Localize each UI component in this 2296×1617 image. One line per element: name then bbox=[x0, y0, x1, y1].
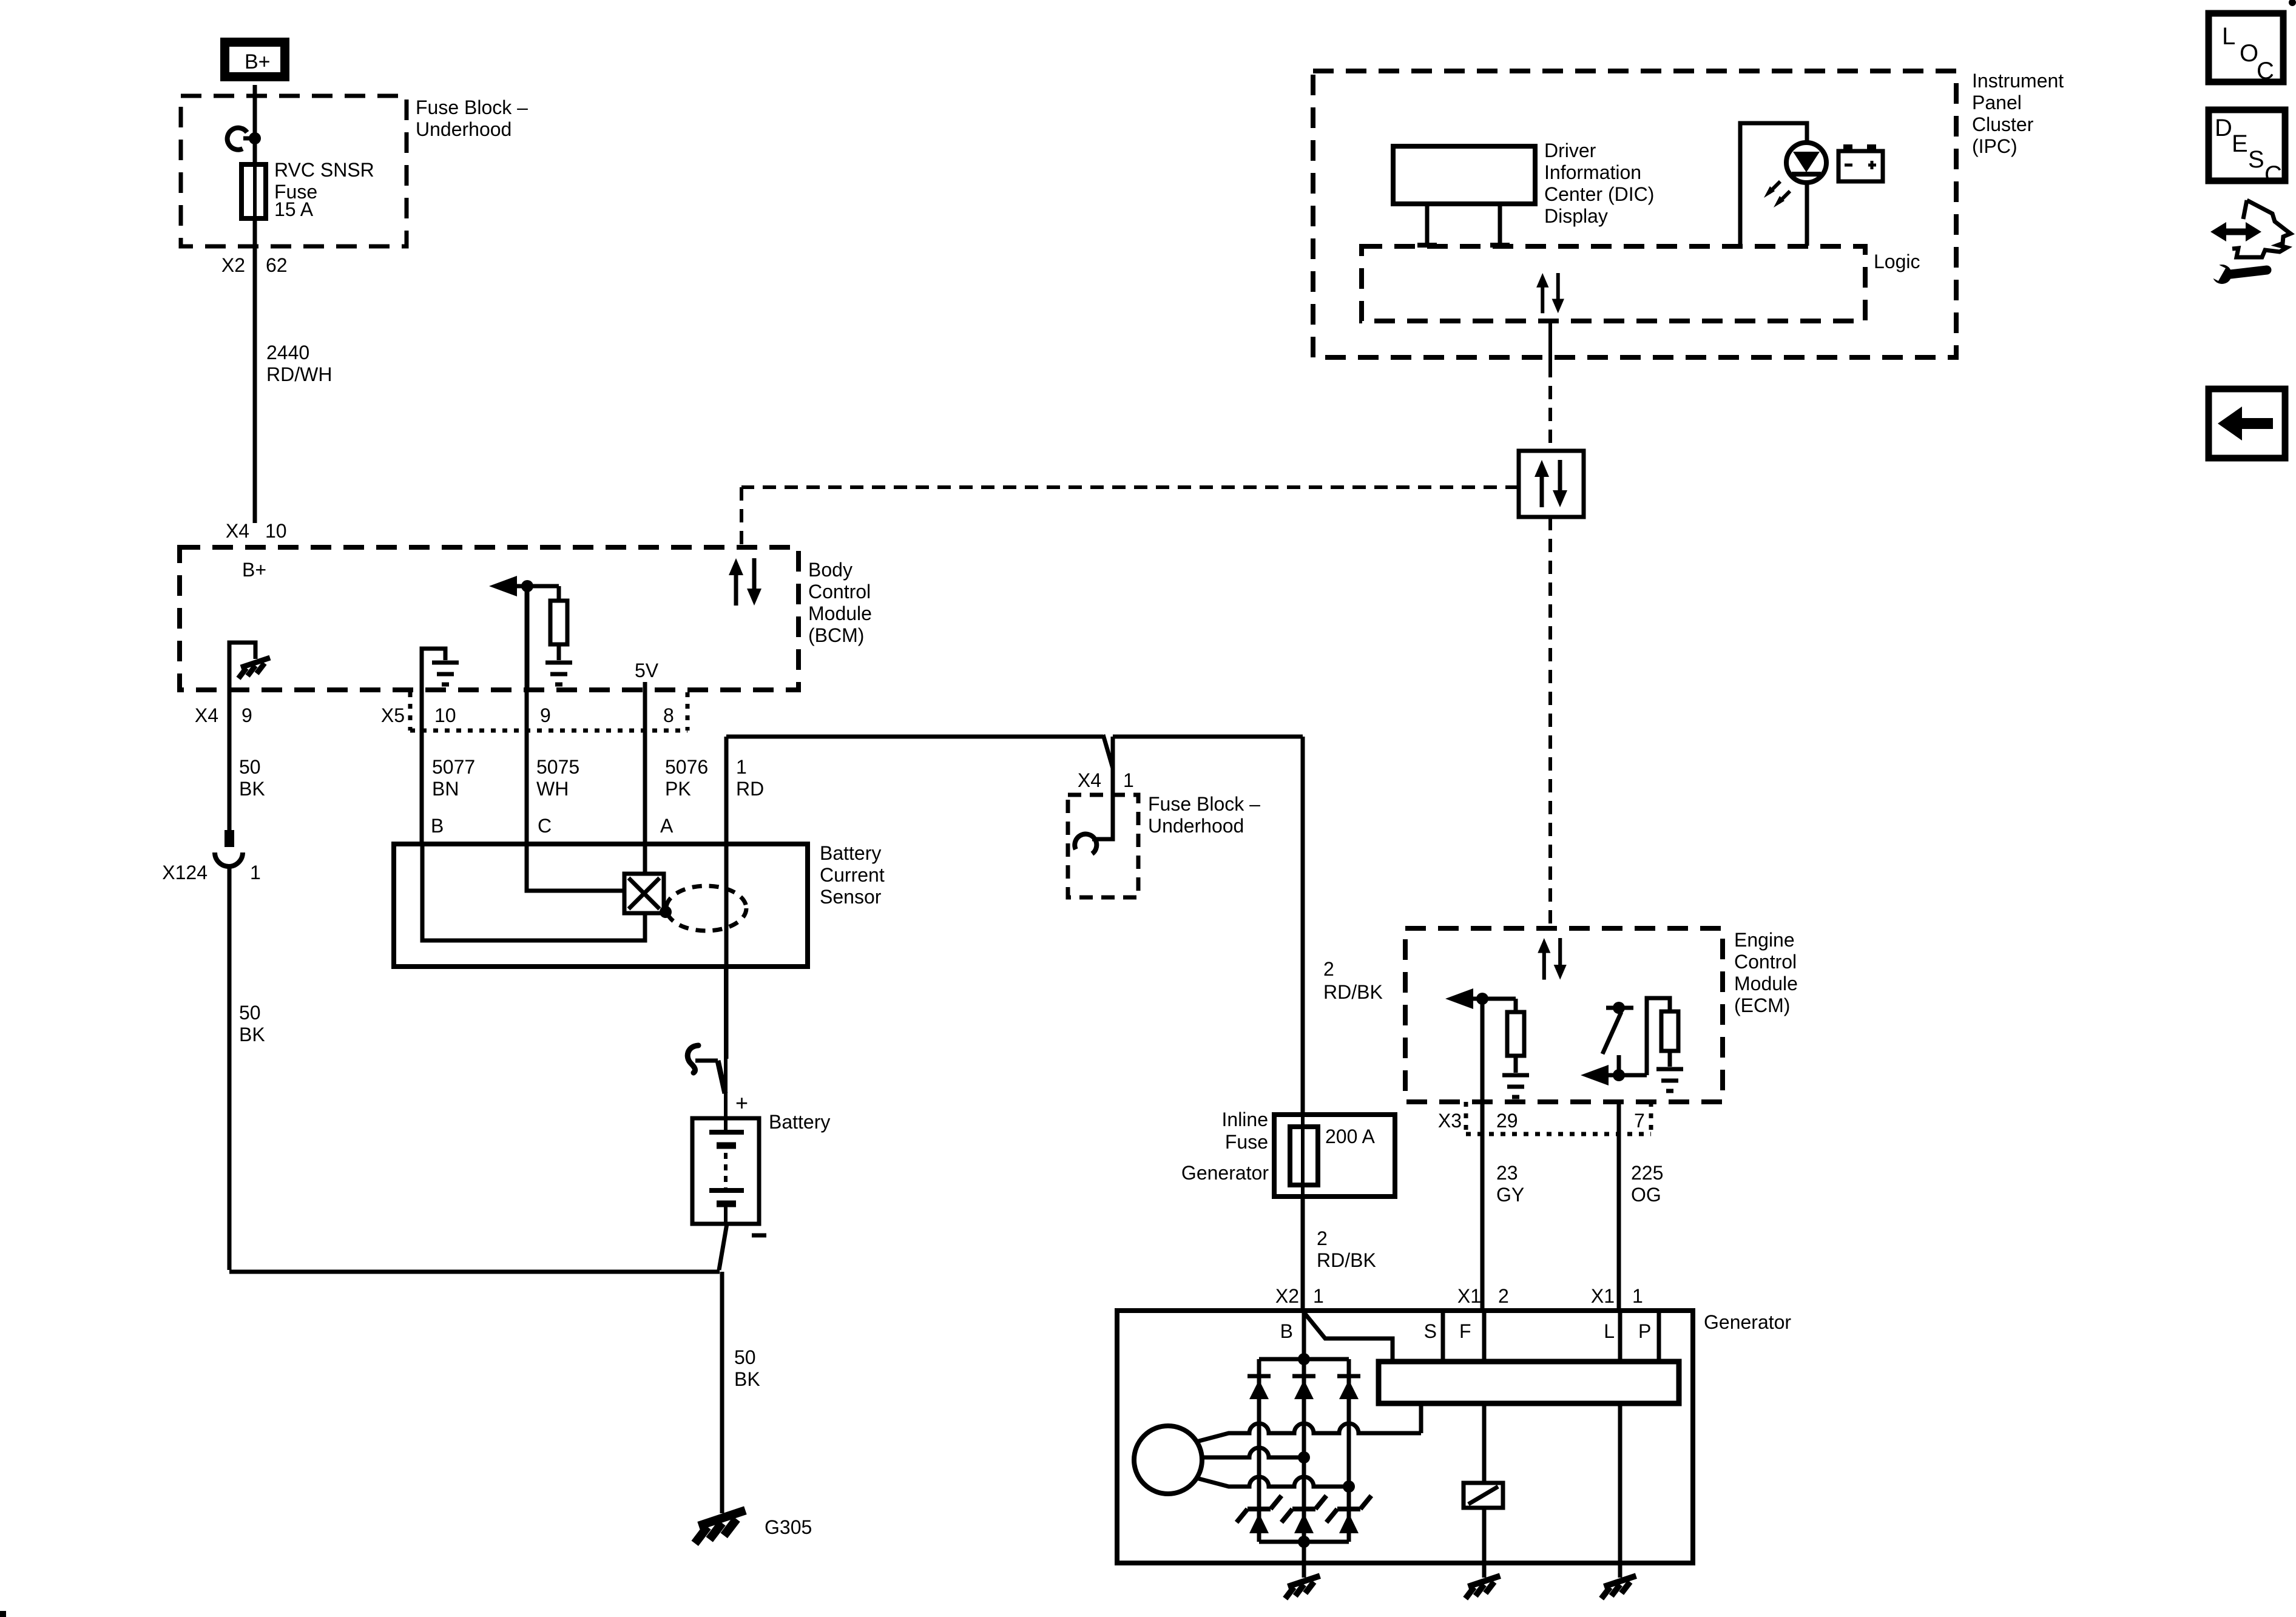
svg-text:Module: Module bbox=[1734, 973, 1798, 994]
svg-text:RD: RD bbox=[736, 778, 764, 800]
svg-text:Body: Body bbox=[808, 559, 853, 581]
battery telltale icon bbox=[1838, 144, 1883, 181]
svg-text:E: E bbox=[2232, 130, 2248, 157]
svg-text:2440: 2440 bbox=[266, 342, 309, 363]
wire 2440 RD/WH from B+ through fuse to BCM bbox=[253, 85, 257, 523]
svg-text:2: 2 bbox=[1317, 1227, 1328, 1249]
generator ground L bbox=[1601, 1563, 1636, 1599]
label Logic bbox=[1874, 251, 1920, 272]
stator phase winding 1 bbox=[1197, 1423, 1421, 1442]
svg-text:Cluster: Cluster bbox=[1972, 113, 2034, 135]
DESC icon box bbox=[2209, 110, 2285, 188]
label G305 bbox=[765, 1516, 812, 1538]
inline fuse box bbox=[1274, 1115, 1395, 1197]
label RVC SNSR Fuse 15 A bbox=[274, 159, 374, 220]
svg-text:Driver: Driver bbox=[1544, 140, 1596, 161]
svg-text:10: 10 bbox=[265, 520, 287, 542]
svg-text:X124: X124 bbox=[162, 862, 208, 883]
svg-text:1: 1 bbox=[250, 862, 261, 883]
svg-text:1: 1 bbox=[1123, 769, 1134, 791]
svg-text:OG: OG bbox=[1631, 1184, 1661, 1206]
label 5076 PK bbox=[665, 756, 708, 800]
svg-text:WH: WH bbox=[536, 778, 569, 800]
svg-text:Current: Current bbox=[820, 864, 885, 886]
wire 50 BK lower segment bbox=[229, 866, 720, 1272]
connector X124 male pin bbox=[225, 830, 234, 847]
label Generator at fuse bbox=[1181, 1162, 1269, 1184]
svg-text:Logic: Logic bbox=[1874, 251, 1920, 272]
svg-text:S: S bbox=[2248, 146, 2264, 173]
svg-text:Engine: Engine bbox=[1734, 929, 1795, 951]
svg-text:10: 10 bbox=[434, 704, 456, 726]
generator pin divider S-F bbox=[1441, 1311, 1445, 1362]
svg-text:X4: X4 bbox=[226, 520, 249, 542]
svg-text:X1: X1 bbox=[1591, 1285, 1615, 1307]
hand icon outline bbox=[2232, 200, 2291, 257]
voltage regulator box bbox=[1379, 1362, 1679, 1403]
svg-text:1: 1 bbox=[736, 756, 747, 778]
svg-text:C: C bbox=[2264, 161, 2282, 188]
LOC icon box bbox=[2209, 13, 2283, 84]
svg-text:(ECM): (ECM) bbox=[1734, 994, 1790, 1016]
connector X1 pin 1 labels bbox=[1591, 1285, 1643, 1307]
BCM internal ground circuit pin X5-10 bbox=[422, 649, 459, 690]
rectifier top bus bbox=[1259, 1357, 1349, 1362]
generator L wire lower bbox=[1618, 1403, 1622, 1563]
svg-text:Generator: Generator bbox=[1704, 1311, 1791, 1333]
connector X2 pin 62 labels bbox=[221, 254, 288, 276]
ECM data arrows bbox=[1538, 938, 1567, 980]
ECM dashed box bbox=[1405, 928, 1723, 1102]
BCM data arrows bbox=[729, 558, 761, 606]
connector X3 dotted box bbox=[1466, 1102, 1651, 1134]
sensor internal B path bbox=[422, 844, 645, 940]
generator F wire lower and field winding bbox=[1464, 1403, 1503, 1563]
svg-text:Battery: Battery bbox=[820, 842, 881, 864]
battery negative jog bbox=[719, 1224, 727, 1270]
serial data box arrows bbox=[1535, 460, 1567, 507]
svg-text:X2: X2 bbox=[221, 254, 245, 276]
label battery minus bbox=[752, 1234, 766, 1238]
label Instrument Panel Cluster IPC bbox=[1972, 70, 2064, 157]
BCM sense circuit with resistor pin X5-9 bbox=[489, 576, 572, 690]
generator pin divider P right bbox=[1657, 1311, 1661, 1362]
serial data dashed bus to BCM bbox=[741, 487, 1519, 547]
wire 5076 PK bbox=[643, 690, 647, 844]
svg-text:Inline: Inline bbox=[1222, 1109, 1269, 1130]
svg-text:O: O bbox=[2240, 40, 2258, 67]
svg-text:200 A: 200 A bbox=[1325, 1126, 1376, 1147]
svg-text:B+: B+ bbox=[245, 50, 271, 73]
label 5077 BN bbox=[432, 756, 475, 800]
svg-text:X2: X2 bbox=[1275, 1285, 1299, 1307]
stator phase winding 2 bbox=[1202, 1448, 1310, 1463]
svg-text:C: C bbox=[538, 815, 552, 837]
battery cell plates bbox=[709, 1132, 744, 1224]
label Inline Fuse bbox=[1222, 1109, 1269, 1153]
connector X124 labels bbox=[162, 862, 261, 883]
svg-text:Battery: Battery bbox=[769, 1111, 830, 1133]
battery current sensor box bbox=[394, 844, 808, 967]
sensor junction dot bbox=[660, 906, 672, 918]
generator F wire upper bbox=[1482, 1311, 1487, 1362]
serial data dashed bus to ECM bbox=[1548, 517, 1552, 928]
svg-text:23: 23 bbox=[1496, 1162, 1518, 1184]
svg-text:5077: 5077 bbox=[432, 756, 475, 778]
label Body Control Module BCM bbox=[808, 559, 872, 646]
battery box bbox=[692, 1118, 759, 1224]
logic data arrows bbox=[1536, 273, 1564, 313]
svg-text:5075: 5075 bbox=[536, 756, 579, 778]
svg-text:62: 62 bbox=[266, 254, 288, 276]
ECM sense circuit pin X3-29 bbox=[1445, 988, 1529, 1102]
fuse RVC SNSR 15A element bbox=[241, 164, 266, 218]
IPC indicator wire loop bbox=[1740, 123, 1807, 246]
connector X4 pin 10 labels bbox=[226, 520, 287, 542]
rectifier column wires bbox=[1259, 1359, 1349, 1542]
label 50 BK mid bbox=[239, 1002, 265, 1045]
svg-text:(IPC): (IPC) bbox=[1972, 135, 2017, 157]
label Engine Control Module ECM bbox=[1734, 929, 1798, 1016]
ground G305 bbox=[695, 1510, 745, 1543]
wire 2 RD/BK lower bbox=[1301, 1197, 1305, 1311]
wire 5077 BN bbox=[420, 690, 424, 844]
logic dashed box bbox=[1362, 246, 1865, 321]
svg-text:Generator: Generator bbox=[1181, 1162, 1269, 1184]
svg-text:RD/WH: RD/WH bbox=[266, 363, 332, 385]
wrench icon bbox=[2201, 258, 2267, 284]
svg-text:X4: X4 bbox=[195, 704, 218, 726]
BCM 5V supply stub pin X5-8 bbox=[635, 660, 659, 690]
svg-text:225: 225 bbox=[1631, 1162, 1663, 1184]
generator L wire upper bbox=[1618, 1311, 1622, 1362]
fuse block underhood small dashed box bbox=[1068, 795, 1138, 897]
svg-text:S: S bbox=[1424, 1320, 1437, 1342]
terminal curl at fuse block feed bbox=[225, 126, 255, 151]
corner dot bbox=[2289, 0, 2296, 6]
wire 225 OG bbox=[1617, 1102, 1621, 1311]
label Fuse Block Underhood bbox=[416, 96, 528, 140]
connector X124 female cup bbox=[215, 852, 243, 866]
connector X1 pin 2 labels bbox=[1457, 1285, 1509, 1307]
svg-text:50: 50 bbox=[239, 756, 261, 778]
DIC display legs bbox=[1417, 204, 1510, 245]
wire branch into underhood fuse block X4-1 bbox=[1073, 737, 1113, 854]
svg-text:L: L bbox=[2222, 23, 2235, 50]
generator B ground wire bbox=[1302, 1542, 1306, 1563]
svg-text:BK: BK bbox=[734, 1368, 760, 1390]
serial data stub from logic bbox=[1548, 321, 1552, 364]
sensor internal A path bbox=[643, 844, 647, 874]
svg-text:D: D bbox=[2215, 115, 2232, 141]
sensor dashed loop ellipse bbox=[666, 886, 746, 931]
power symbol B+ box bbox=[225, 42, 285, 77]
label battery plus bbox=[735, 1090, 748, 1115]
label 2440 RD/WH bbox=[266, 342, 332, 385]
svg-text:RD/BK: RD/BK bbox=[1323, 981, 1383, 1003]
connector X3 pin labels bbox=[1438, 1110, 1645, 1132]
label Fuse Block Underhood right bbox=[1148, 793, 1260, 837]
wire 1 RD horizontal run bbox=[726, 735, 1103, 739]
double arrow icon bbox=[2210, 222, 2261, 241]
label 5075 WH bbox=[536, 756, 579, 800]
generator pin letters bbox=[1280, 1320, 1652, 1342]
serial data box bbox=[1519, 451, 1584, 517]
svg-text:Information: Information bbox=[1544, 161, 1641, 183]
label Battery Current Sensor bbox=[820, 842, 885, 908]
svg-text:F: F bbox=[1459, 1320, 1471, 1342]
generator ground B bbox=[1285, 1563, 1320, 1599]
wire 50 BK upper segment bbox=[228, 690, 232, 830]
svg-text:5V: 5V bbox=[635, 660, 659, 681]
svg-text:PK: PK bbox=[665, 778, 691, 800]
svg-text:B: B bbox=[431, 815, 444, 837]
rectifier upper diodes bbox=[1248, 1376, 1360, 1399]
page corner mark bbox=[0, 1611, 6, 1617]
svg-text:X1: X1 bbox=[1457, 1285, 1481, 1307]
svg-text:(BCM): (BCM) bbox=[808, 624, 864, 646]
svg-text:Control: Control bbox=[808, 581, 871, 603]
svg-text:50: 50 bbox=[734, 1346, 756, 1368]
rectifier bottom bus bbox=[1259, 1536, 1349, 1548]
connector X5 pin labels bbox=[381, 704, 674, 726]
wire 2 RD/BK upper bbox=[1113, 737, 1303, 1115]
wire 5075 WH bbox=[525, 586, 529, 844]
label B+ inside BCM bbox=[242, 559, 266, 581]
svg-text:Display: Display bbox=[1544, 205, 1608, 227]
svg-text:7: 7 bbox=[1634, 1110, 1645, 1132]
svg-text:X5: X5 bbox=[381, 704, 405, 726]
label Generator bbox=[1704, 1311, 1791, 1333]
wire battery negative to G305 bbox=[720, 1272, 724, 1513]
svg-text:9: 9 bbox=[540, 704, 551, 726]
BCM dashed box bbox=[180, 547, 799, 690]
sensor internal C path bbox=[527, 844, 624, 891]
svg-text:A: A bbox=[660, 815, 674, 837]
junction node in fuse block bbox=[249, 132, 261, 144]
svg-text:Panel: Panel bbox=[1972, 92, 2022, 113]
svg-text:Control: Control bbox=[1734, 951, 1797, 973]
label 50 BK battery bbox=[734, 1346, 760, 1390]
svg-text:RVC SNSR: RVC SNSR bbox=[274, 159, 374, 181]
svg-text:50: 50 bbox=[239, 1002, 261, 1024]
connector X4 pin 9 labels bbox=[195, 704, 252, 726]
generator ground F bbox=[1465, 1563, 1500, 1599]
battery positive connector curl bbox=[687, 967, 726, 1132]
connector X4 pin 1 labels bbox=[1078, 769, 1134, 791]
svg-text:RD/BK: RD/BK bbox=[1317, 1249, 1376, 1271]
label 2 RD/BK lower bbox=[1317, 1227, 1376, 1271]
svg-text:Fuse: Fuse bbox=[1225, 1131, 1268, 1153]
svg-text:2: 2 bbox=[1498, 1285, 1509, 1307]
svg-text:X3: X3 bbox=[1438, 1110, 1462, 1132]
charge indicator LED bbox=[1786, 143, 1826, 183]
generator B to S sense wire bbox=[1304, 1312, 1393, 1362]
svg-text:2: 2 bbox=[1323, 958, 1334, 980]
label 23 GY bbox=[1496, 1162, 1524, 1206]
svg-text:BK: BK bbox=[239, 778, 265, 800]
svg-text:Underhood: Underhood bbox=[1148, 815, 1244, 837]
stator phase winding 3 bbox=[1197, 1477, 1355, 1493]
ECM switch circuit pin X3-7 bbox=[1581, 998, 1683, 1091]
svg-text:Center (DIC): Center (DIC) bbox=[1544, 183, 1654, 205]
svg-text:29: 29 bbox=[1496, 1110, 1518, 1132]
svg-text:BN: BN bbox=[432, 778, 459, 800]
svg-text:Sensor: Sensor bbox=[820, 886, 882, 908]
svg-text:GY: GY bbox=[1496, 1184, 1524, 1206]
connector pass-through jog at X4-1 bbox=[1103, 735, 1113, 768]
rectifier lower avalanche diodes bbox=[1237, 1496, 1371, 1533]
fuse block underhood dashed box bbox=[181, 96, 407, 246]
svg-text:Fuse Block –: Fuse Block – bbox=[416, 96, 528, 118]
svg-text:15 A: 15 A bbox=[274, 198, 314, 220]
svg-text:1: 1 bbox=[1313, 1285, 1324, 1307]
label 1 RD bbox=[736, 756, 764, 800]
serial data dashed down to data box bbox=[1548, 364, 1552, 451]
sensor hall element X box bbox=[624, 874, 664, 913]
svg-text:B+: B+ bbox=[242, 559, 266, 581]
generator B wire and bus dots bbox=[1298, 1311, 1310, 1365]
LED light arrows bbox=[1764, 181, 1790, 208]
svg-text:Instrument: Instrument bbox=[1972, 70, 2064, 92]
svg-text:P: P bbox=[1638, 1320, 1651, 1342]
label Driver Information Center DIC Display bbox=[1544, 140, 1654, 227]
svg-text:G305: G305 bbox=[765, 1516, 812, 1538]
label 225 OG bbox=[1631, 1162, 1663, 1206]
connector X5 dotted box bbox=[410, 692, 687, 731]
svg-text:5076: 5076 bbox=[665, 756, 708, 778]
svg-text:Module: Module bbox=[808, 603, 872, 624]
wire 1 RD vertical bbox=[724, 737, 729, 1059]
BCM internal chassis ground circuit pin X4-9 bbox=[229, 643, 270, 690]
regulator to stator wire bbox=[1419, 1403, 1423, 1433]
IPC dashed box bbox=[1313, 71, 1956, 357]
svg-text:C: C bbox=[2257, 58, 2274, 84]
connector X2 pin 1 labels bbox=[1275, 1285, 1324, 1307]
label 200 A bbox=[1325, 1126, 1376, 1147]
svg-text:X4: X4 bbox=[1078, 769, 1101, 791]
label Battery bbox=[769, 1111, 830, 1133]
svg-text:9: 9 bbox=[241, 704, 252, 726]
svg-text:Fuse Block –: Fuse Block – bbox=[1148, 793, 1260, 815]
svg-text:B: B bbox=[1280, 1320, 1293, 1342]
label 2 RD/BK upper bbox=[1323, 958, 1383, 1003]
svg-text:+: + bbox=[735, 1090, 748, 1115]
stator rotor circle bbox=[1134, 1426, 1202, 1494]
wire 23 GY bbox=[1481, 1102, 1485, 1311]
svg-text:1: 1 bbox=[1632, 1285, 1643, 1307]
DIC display box bbox=[1393, 146, 1535, 204]
svg-text:8: 8 bbox=[663, 704, 674, 726]
label 50 BK upper bbox=[239, 756, 265, 800]
svg-text:Underhood: Underhood bbox=[416, 118, 512, 140]
svg-text:BK: BK bbox=[239, 1024, 265, 1045]
back arrow icon box bbox=[2209, 389, 2285, 458]
sensor pin letters B C A bbox=[431, 815, 674, 837]
inline fuse element bbox=[1290, 1115, 1318, 1197]
svg-text:L: L bbox=[1604, 1320, 1615, 1342]
generator box bbox=[1117, 1311, 1693, 1563]
